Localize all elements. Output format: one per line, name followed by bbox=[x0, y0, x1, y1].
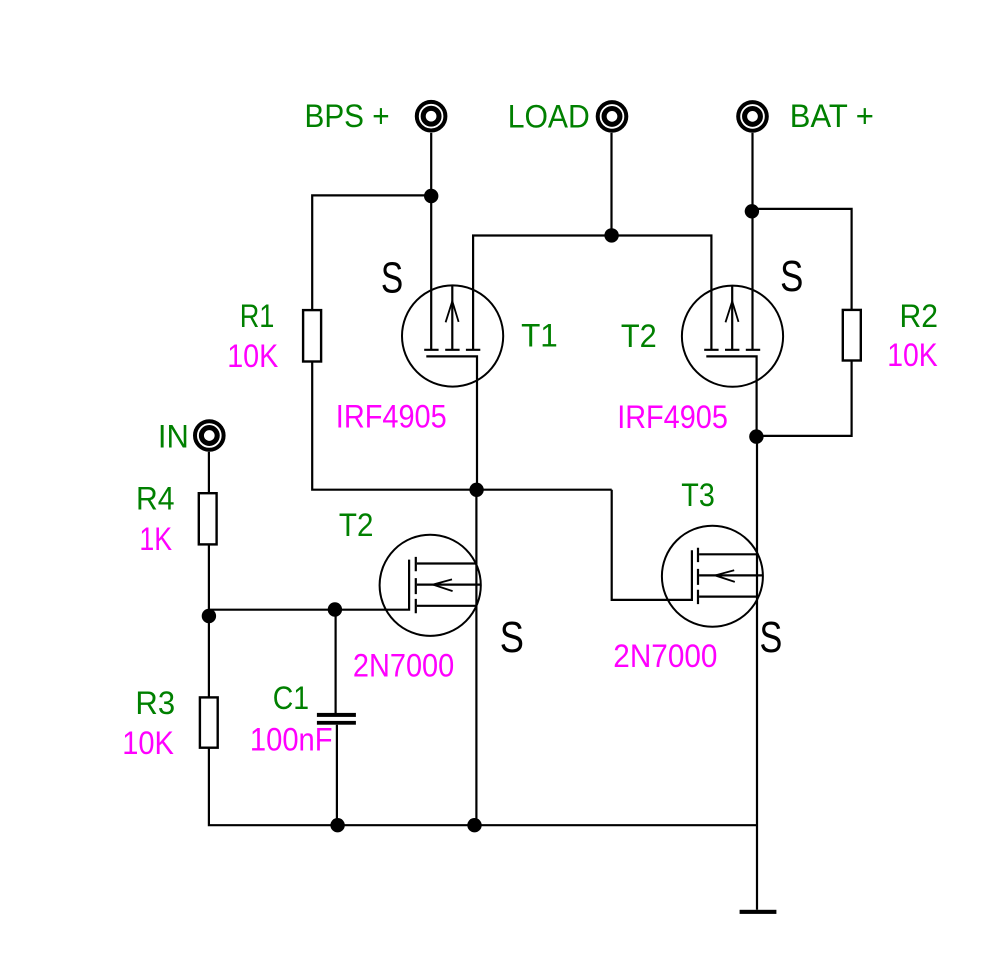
svg-text:R1: R1 bbox=[240, 298, 275, 334]
svg-text:10K: 10K bbox=[887, 337, 938, 373]
svg-text:LOAD: LOAD bbox=[508, 98, 590, 134]
svg-text:R4: R4 bbox=[136, 481, 175, 517]
svg-text:IRF4905: IRF4905 bbox=[336, 398, 447, 434]
svg-text:IN: IN bbox=[158, 418, 189, 454]
svg-text:S: S bbox=[500, 614, 524, 662]
svg-text:BAT +: BAT + bbox=[790, 98, 874, 134]
svg-text:BPS +: BPS + bbox=[305, 98, 390, 134]
svg-text:C1: C1 bbox=[273, 680, 309, 716]
svg-text:IRF4905: IRF4905 bbox=[617, 399, 728, 435]
svg-text:10K: 10K bbox=[227, 338, 278, 374]
svg-text:S: S bbox=[381, 255, 403, 303]
svg-text:1K: 1K bbox=[139, 521, 172, 557]
svg-text:T2: T2 bbox=[621, 318, 657, 354]
svg-text:2N7000: 2N7000 bbox=[353, 647, 454, 683]
svg-text:100nF: 100nF bbox=[250, 721, 333, 757]
svg-text:T1: T1 bbox=[521, 317, 558, 353]
svg-text:R2: R2 bbox=[900, 298, 939, 334]
svg-text:10K: 10K bbox=[122, 725, 174, 761]
svg-text:T2: T2 bbox=[339, 507, 374, 543]
svg-text:T3: T3 bbox=[681, 477, 715, 513]
svg-text:S: S bbox=[760, 614, 783, 662]
svg-text:S: S bbox=[780, 253, 803, 301]
svg-text:R3: R3 bbox=[135, 685, 175, 721]
svg-text:2N7000: 2N7000 bbox=[613, 638, 717, 674]
